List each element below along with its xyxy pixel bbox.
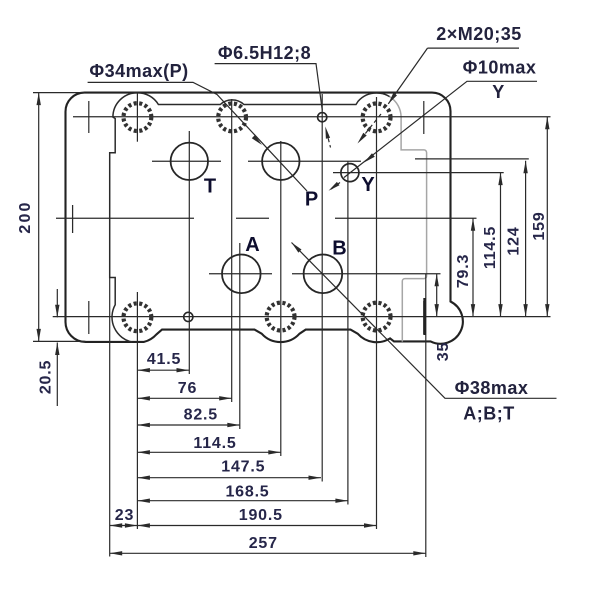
svg-text:76: 76	[178, 380, 197, 397]
svg-text:2×M20;35: 2×M20;35	[436, 24, 522, 44]
svg-text:114.5: 114.5	[193, 435, 236, 452]
svg-text:124: 124	[506, 226, 523, 255]
leader lines	[88, 48, 557, 398]
svg-text:Φ34max(P): Φ34max(P)	[89, 61, 188, 81]
row centerlines	[33, 93, 551, 342]
svg-text:257: 257	[249, 535, 278, 552]
thick doubled extension near bottom-right notch	[423, 298, 426, 335]
threaded holes M20	[123, 103, 390, 331]
texts: bottom dimension stack	[115, 351, 283, 552]
svg-text:Φ38max: Φ38max	[455, 378, 529, 398]
plate outline	[65, 93, 462, 344]
svg-text:Y: Y	[361, 174, 375, 196]
svg-text:23: 23	[115, 507, 134, 524]
port hole T	[171, 143, 208, 180]
column centerlines / extension lines	[89, 93, 426, 557]
svg-text:Φ6.5H12;8: Φ6.5H12;8	[218, 43, 311, 63]
dimension lines	[39, 93, 548, 554]
svg-text:159: 159	[531, 211, 548, 240]
svg-text:P: P	[305, 189, 318, 211]
svg-text:A;B;T: A;B;T	[463, 404, 514, 424]
svg-text:T: T	[204, 176, 216, 198]
svg-text:35: 35	[435, 342, 452, 361]
svg-text:Φ10max: Φ10max	[463, 58, 537, 78]
svg-text:190.5: 190.5	[239, 507, 283, 524]
svg-text:82.5: 82.5	[184, 407, 218, 424]
port hole P	[262, 143, 299, 180]
svg-text:79.3: 79.3	[455, 254, 472, 288]
svg-text:Y: Y	[492, 82, 505, 102]
hole 6.5 bottom	[184, 312, 193, 321]
hole Y	[341, 164, 359, 182]
port letters	[204, 174, 375, 260]
hole 6.5 top	[318, 113, 327, 122]
svg-text:20.5: 20.5	[38, 360, 55, 394]
svg-text:147.5: 147.5	[221, 459, 265, 476]
svg-text:200: 200	[17, 200, 34, 233]
svg-text:168.5: 168.5	[225, 484, 269, 501]
callout labels	[89, 24, 536, 424]
svg-text:A: A	[245, 234, 259, 256]
svg-text:41.5: 41.5	[147, 351, 181, 368]
rotated dimension texts	[17, 200, 548, 394]
port hole B	[304, 254, 343, 293]
svg-text:114.5: 114.5	[482, 226, 499, 269]
valve body contour	[110, 93, 390, 342]
port hole A	[222, 254, 261, 293]
svg-text:B: B	[332, 238, 346, 260]
valve contour right side (faded)	[390, 97, 427, 342]
